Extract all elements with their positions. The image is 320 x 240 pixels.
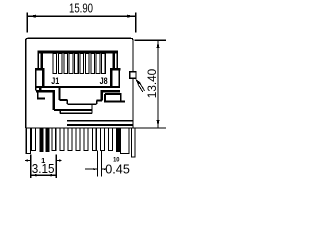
svg-text:J1: J1	[51, 76, 59, 86]
svg-text:J8: J8	[100, 76, 108, 86]
svg-text:15.90: 15.90	[69, 2, 93, 16]
svg-text:0.45: 0.45	[105, 161, 130, 176]
svg-text:13.40: 13.40	[145, 69, 159, 99]
svg-text:3.15: 3.15	[32, 162, 55, 177]
